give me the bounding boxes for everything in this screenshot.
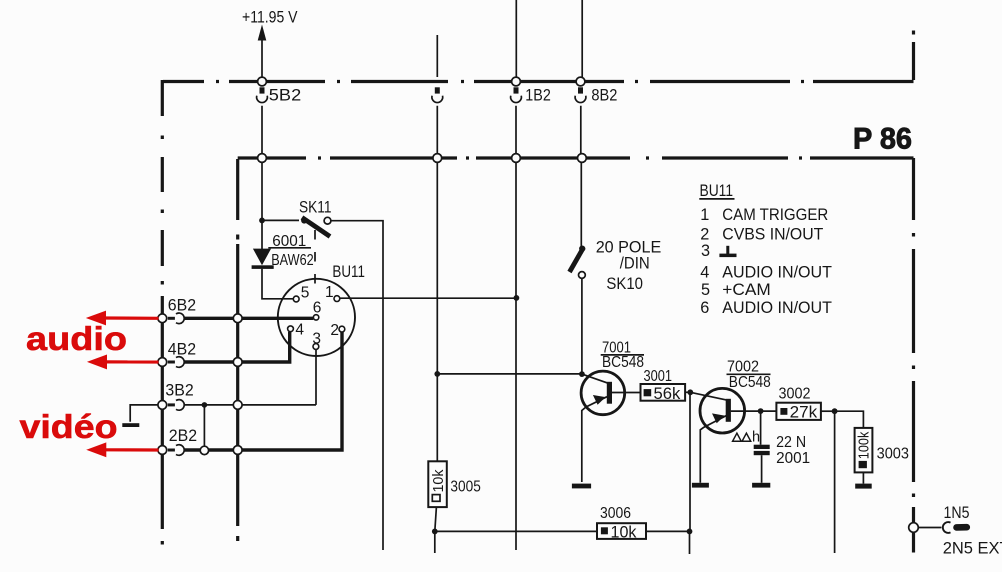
wire 7002 base to 27k node [731,410,777,412]
svg-text:BU11: BU11 [332,263,365,281]
label 7002 underline [727,373,771,375]
connector 1N5 cup and plug [943,522,967,533]
wire 56k junction down to 3006 junction [689,392,692,554]
svg-text:+11.95 V: +11.95 V [242,8,298,26]
svg-text:4: 4 [295,322,304,339]
wire 5B2 below cup to inner border [261,106,263,221]
BU11 pin 1 [334,296,340,302]
svg-text:6: 6 [313,300,322,317]
svg-text:BC548: BC548 [729,374,771,391]
diode 6001 BAW62 [252,249,274,269]
wire diode branch down to pin5 [262,220,293,298]
crossing circle 3B2 on inner border [233,401,242,410]
resistor R3001 56k [641,384,686,403]
transistor Q 7001 BC548 [581,371,625,415]
wire 3B2 outside ground branch [130,405,157,422]
resistor R3003 100k vertical [855,428,873,473]
border frame right dash-dot line [912,158,915,553]
BU11 pin 2 [339,326,345,332]
svg-text:SK11: SK11 [299,199,332,217]
svg-text:SK10: SK10 [606,275,643,293]
BU11 pin 3 [313,344,319,350]
crossing circle 6B2 on inner border [233,314,242,323]
node 582 on inner border [578,154,587,163]
svg-text:BU11: BU11 [700,182,734,200]
wire 4B2 row thick to pin4 [184,332,290,364]
node 8B2 on top border [576,77,585,86]
junction dot 3005 bottom [432,529,438,535]
svg-text:2N5 EXT: 2N5 EXT [943,540,1002,558]
node 437 on inner border [433,154,442,163]
junction dot 27k out [832,408,838,414]
wire SK11 output to x383 then down [331,221,383,550]
svg-text:5: 5 [301,285,310,302]
svg-text:10k: 10k [611,523,638,541]
junction dot 3B2 row [202,402,208,408]
svg-text:h: h [752,429,760,445]
svg-text:3B2: 3B2 [165,381,193,399]
svg-text:8B2: 8B2 [591,87,617,105]
border frame P86 top dash-dot line [163,80,914,83]
connector 2B2 on left border [158,445,184,456]
connector 4B2 on left border [158,357,184,368]
wire 3006 row [435,530,690,532]
svg-text:P 86: P 86 [853,123,912,156]
wire pin1 to x516 [340,297,517,299]
wire 7002 emitter to ground [700,416,726,483]
svg-text:/DIN: /DIN [620,254,650,272]
border frame inner vertical dash-dot line [236,159,239,541]
switch SK10 [570,246,586,279]
wire 3B2 junction down to 2B2 hop [203,405,205,447]
node 5B2 on top border [258,77,267,86]
wire 3005 bottom to 3006 row [435,507,437,553]
svg-text:3005: 3005 [450,479,480,496]
crossing circle 4B2 on inner border [233,358,242,367]
wire 2B2 row thick to pin2 [184,332,342,452]
connector 3B2 on left border [158,400,184,411]
BU11 pin 6 [313,315,318,320]
border frame right top stub [912,31,915,81]
svg-text:1B2: 1B2 [525,87,551,105]
ground symbol in table row 3 [719,246,736,257]
svg-text:22 N: 22 N [776,434,806,451]
wire 6B2 row thick to pin6 [184,317,313,320]
connector 6B2 on left border [158,313,184,324]
wire SK11 feed from node 262 [262,219,299,221]
ground 3B2 external [122,423,139,427]
wire 1N5 from border circle [918,527,941,529]
wire 27k node to 100k [835,411,864,428]
ground 7002 emitter [692,483,709,488]
label 7001 underline [601,354,644,356]
label oscillogram marks (triangles + h) [733,429,760,445]
BU11 pin 4 [288,326,294,332]
svg-text:BC548: BC548 [602,354,644,371]
wire 7002 collector diagonal [690,392,728,400]
wire 7001 collector diagonal [582,374,609,383]
connector 8B2 plug and cup [575,87,586,102]
junction dot 7002 collector out [758,408,764,414]
svg-text:27k: 27k [790,404,818,422]
wire 27k node down [834,411,836,553]
ground 3003 [855,484,872,489]
border frame inner dash-dot line y158 [238,156,914,159]
svg-text:10k: 10k [430,469,447,492]
wire 1B2 vertical full [515,0,517,550]
svg-text:3003: 3003 [877,445,909,462]
connector 1B2 plug and cup [511,87,522,102]
junction dot 3006 out [687,529,693,535]
node 262 on inner border [258,154,267,163]
wire 7001 base to 56k [612,392,641,394]
arrow audio 6B2 red [87,311,158,324]
junction dot 7001 base feed [434,371,440,377]
wire 22N cap top [760,411,762,445]
resistor R3002 27k [776,403,821,422]
svg-text:2001: 2001 [776,450,810,467]
wire 8B2 vertical to SK10 [581,0,582,247]
arrow +11.95V up [258,25,267,41]
node 516 on inner border [512,154,521,163]
svg-text:6B2: 6B2 [168,297,196,315]
BU11 pin 5 [293,296,299,302]
svg-text:BAW62: BAW62 [271,252,314,269]
svg-text:3002: 3002 [779,386,811,403]
wire 56k to 7002 junction [685,391,690,393]
svg-text:3001: 3001 [644,368,673,385]
wire node x437 vertical to 3005 [436,106,438,461]
svg-text:100k: 100k [855,431,872,459]
svg-text:3: 3 [701,242,710,260]
resistor R3005 10k vertical [428,461,447,507]
node 1B2 on top border [512,77,521,86]
transistor Q 7002 BC548 [700,388,745,433]
svg-text:1: 1 [325,284,334,301]
svg-text:1N5: 1N5 [944,504,970,522]
svg-text:3: 3 [312,330,321,347]
SK11 mechanical dashed link [314,230,316,284]
junction dot SK11 feed [259,218,265,224]
wire +11.95V supply vertical [261,40,263,77]
junction dot SK10-7001 [579,371,585,377]
resistor R3006 10k [597,523,646,541]
svg-text:2B2: 2B2 [169,427,197,445]
wire 7001 emitter to ground [582,397,607,482]
svg-text:vidéo: vidéo [20,408,118,445]
capacitor C2001 22N [754,445,770,455]
wire node x437 stub above border [436,35,438,77]
connector x437 plug and cup [432,87,443,102]
wire 22N cap bottom to ground [761,455,763,483]
arrow audio 4B2 red [88,355,158,368]
svg-text:56k: 56k [654,385,682,403]
connector 5B2 plug and cup [257,87,268,102]
wire 7001 base row y374 [437,373,582,375]
connector BU11 socket circle [278,279,355,356]
wire 3B2 row thin to pin3 [184,349,316,405]
BU11 pin list table [699,182,832,317]
svg-text:5B2: 5B2 [269,87,301,105]
wire 27k out to node [821,410,835,412]
hop circle on 2B2 wire [200,446,208,454]
wire 100k bottom to ground [862,472,864,483]
junction dot pin1 row at x516 [514,295,520,301]
switch SK11 [301,217,331,236]
svg-text:audio: audio [26,320,127,357]
svg-text:2: 2 [330,322,339,339]
arrow video 2B2 red [88,443,159,456]
crossing circle 2B2 on inner border [233,446,242,455]
ground 22N [752,483,770,488]
node 1N5 on right border [909,523,919,533]
svg-text:4B2: 4B2 [168,341,196,359]
border frame left dash-dot line [161,80,164,545]
svg-text:3006: 3006 [600,505,631,522]
junction dot 56k out [687,389,693,395]
label 6001 underline [268,247,311,249]
ground 7001 emitter [572,484,591,489]
wire SK10 below to 7001 junction [581,279,583,375]
